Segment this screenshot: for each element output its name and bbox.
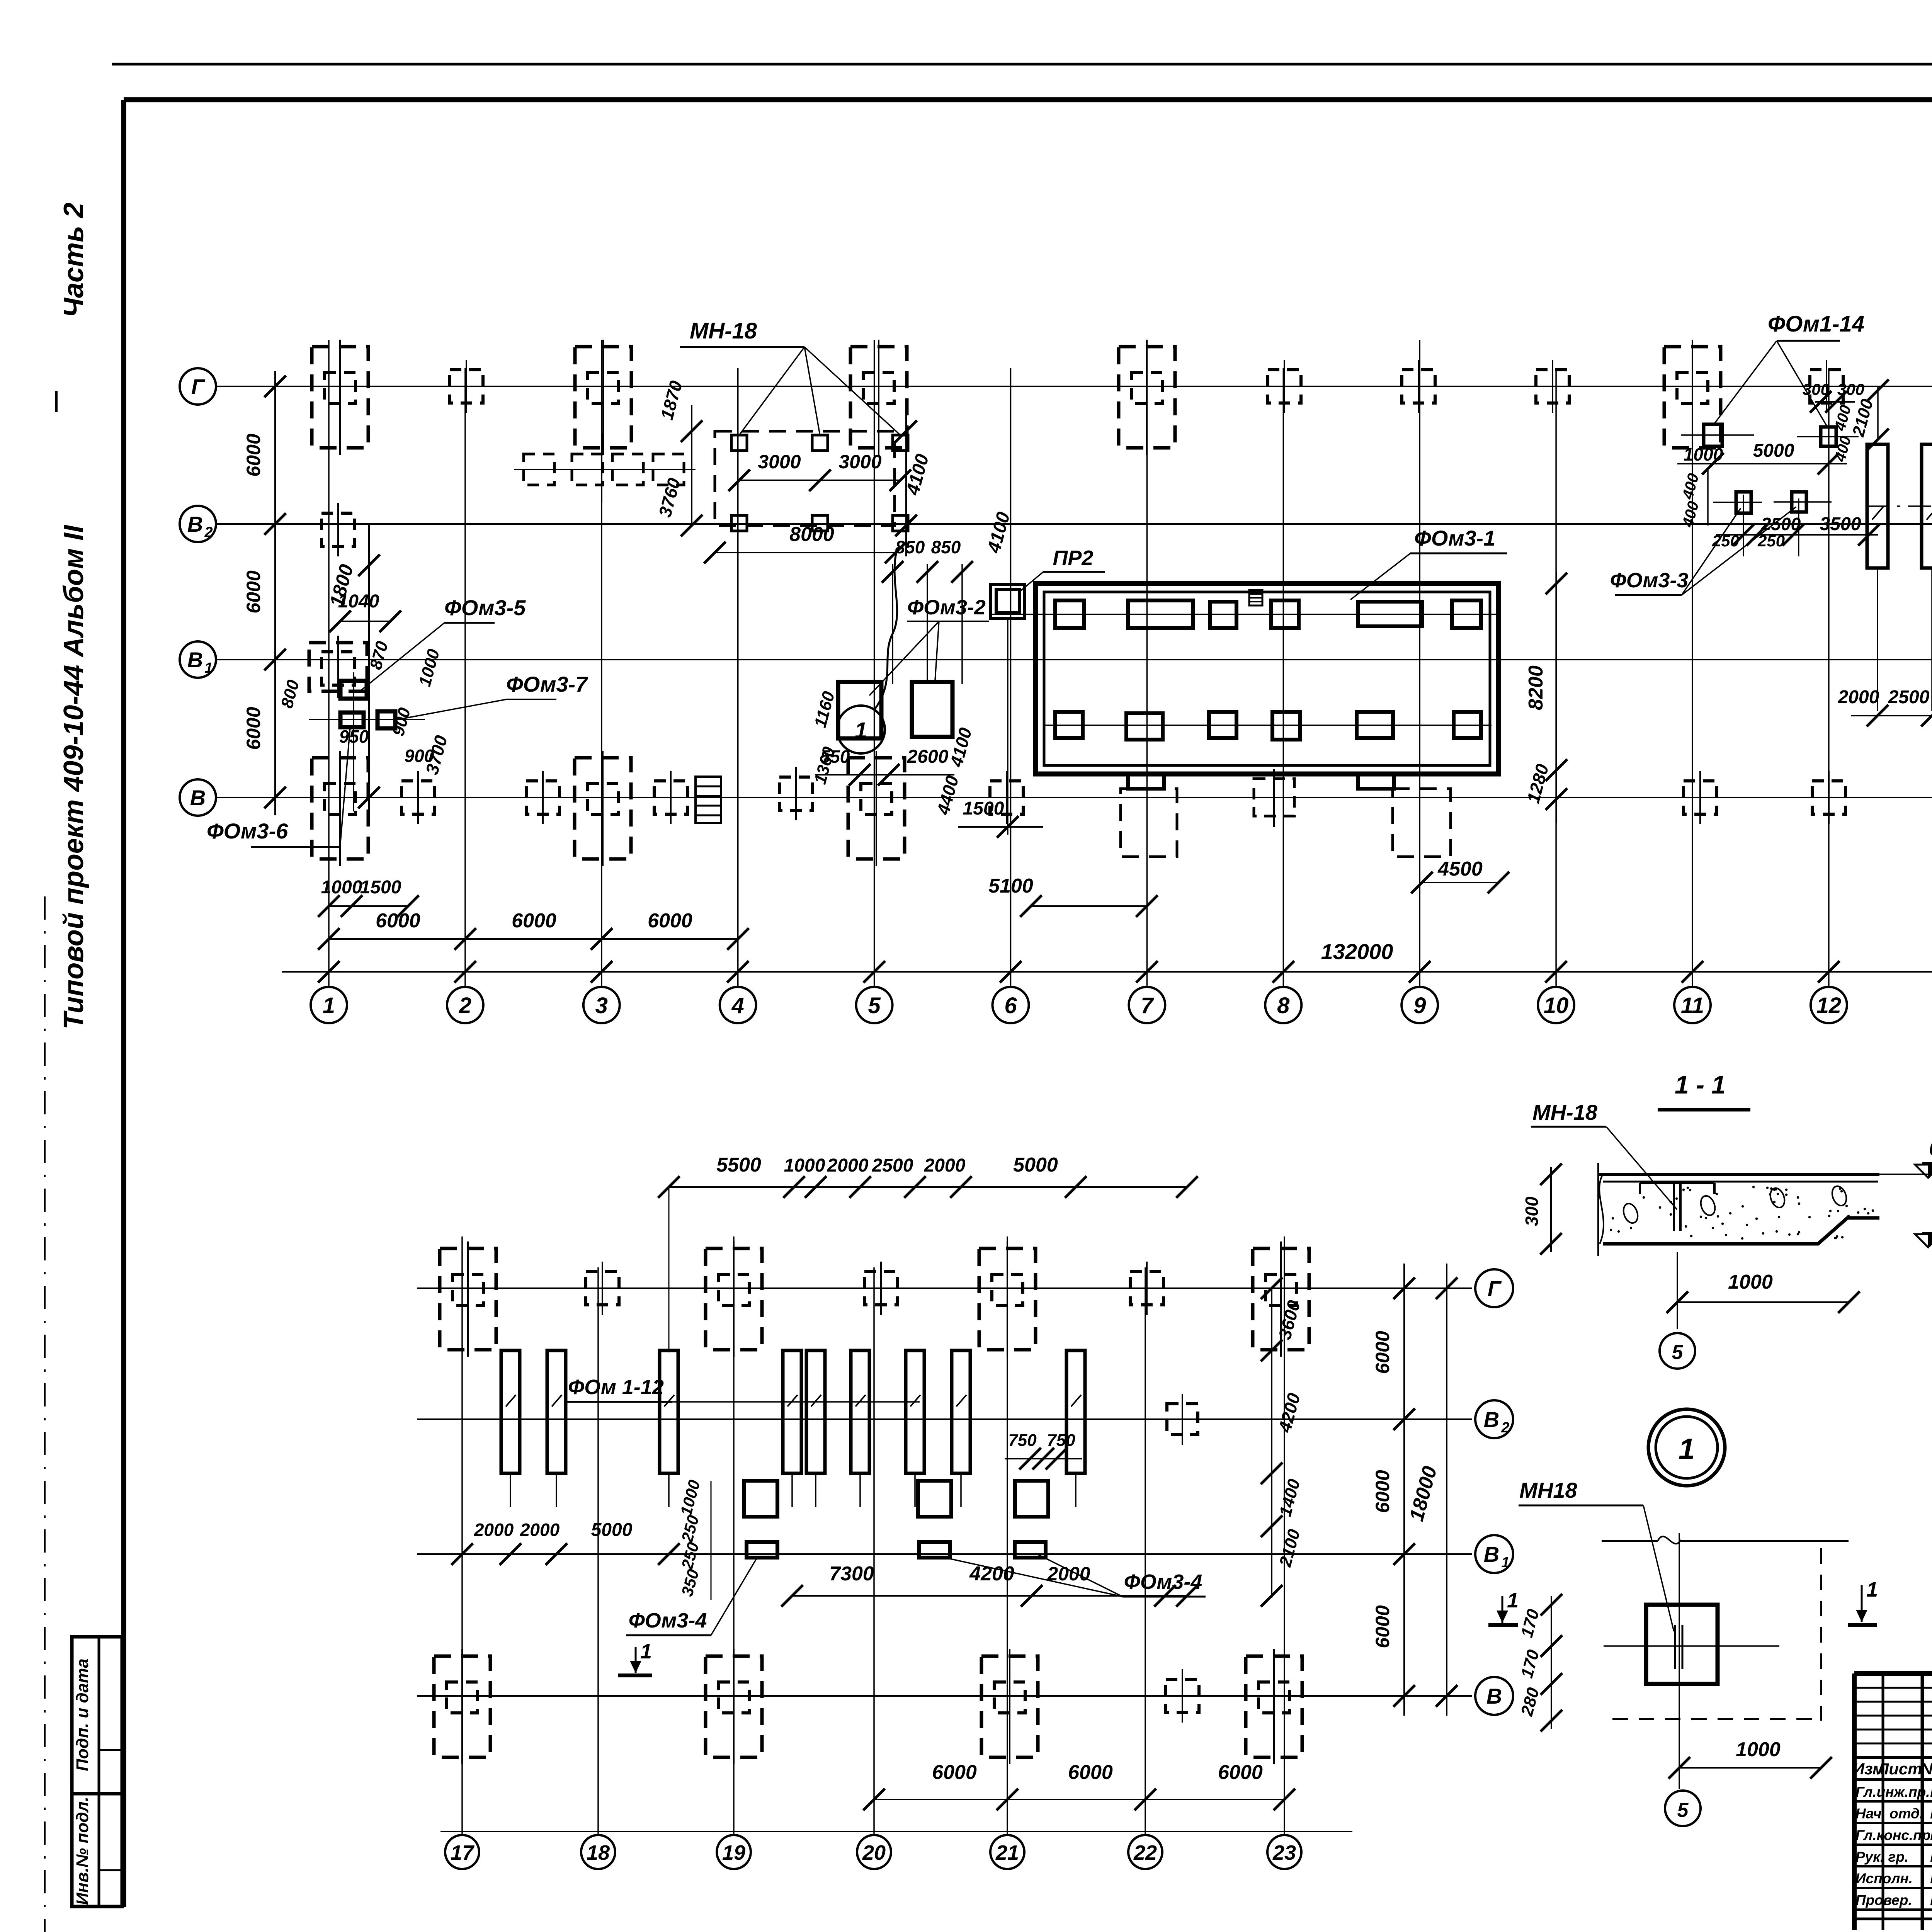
svg-text:ФОм3-4: ФОм3-4 [1124,1570,1202,1594]
svg-text:1040: 1040 [338,591,379,612]
svg-text:Маслобойщикова: Маслобойщикова [1930,1890,1932,1909]
svg-text:1: 1 [323,993,335,1018]
svg-text:6000: 6000 [932,1761,977,1784]
svg-text:1 - 1: 1 - 1 [1675,1070,1726,1099]
svg-text:550: 550 [820,747,850,767]
svg-text:В: В [1484,1542,1499,1566]
svg-text:6000: 6000 [1068,1761,1113,1784]
svg-text:6: 6 [1004,993,1017,1018]
svg-text:ФОм1-14: ФОм1-14 [1768,311,1864,337]
svg-text:Кальчук: Кальчук [1930,1825,1932,1844]
svg-text:5: 5 [1677,1799,1689,1821]
svg-text:2000: 2000 [520,1520,560,1540]
svg-text:12: 12 [1816,993,1842,1018]
svg-text:1000: 1000 [321,877,362,898]
svg-text:Исполн.: Исполн. [1855,1871,1913,1886]
svg-text:11: 11 [1681,993,1704,1018]
svg-text:2000: 2000 [1838,687,1879,707]
svg-text:ФОм3-6: ФОм3-6 [207,819,288,843]
svg-text:3: 3 [595,993,608,1018]
svg-text:3000: 3000 [838,451,881,473]
svg-text:2500: 2500 [872,1155,913,1176]
svg-text:1000: 1000 [1728,1271,1773,1293]
svg-text:2600: 2600 [907,747,949,767]
svg-text:6000: 6000 [1372,1470,1393,1513]
svg-text:В: В [1486,1684,1502,1708]
svg-text:7: 7 [1141,993,1154,1018]
svg-text:10: 10 [1544,993,1569,1018]
svg-text:ФОм3-4: ФОм3-4 [629,1609,707,1632]
svg-text:Маслобойщикова: Маслобойщикова [1930,1847,1932,1866]
svg-text:750: 750 [1047,1431,1075,1450]
svg-text:ФОм3-1: ФОм3-1 [1414,526,1495,550]
svg-text:6000: 6000 [648,910,692,932]
svg-text:6000: 6000 [512,910,556,932]
svg-text:1: 1 [1679,1433,1695,1466]
svg-text:1: 1 [1866,1578,1878,1601]
svg-text:Рук. гр.: Рук. гр. [1855,1849,1908,1865]
svg-text:750: 750 [1008,1431,1037,1450]
svg-text:8: 8 [1277,993,1290,1018]
svg-text:Гл.инж.пр.: Гл.инж.пр. [1855,1784,1930,1800]
svg-text:6000: 6000 [376,910,420,932]
svg-text:ФОм3-7: ФОм3-7 [506,672,588,696]
svg-text:1500: 1500 [963,798,1004,819]
svg-text:ФОм3-3: ФОм3-3 [1610,569,1689,592]
svg-text:850: 850 [931,537,961,557]
svg-text:3500: 3500 [1820,514,1861,534]
svg-text:1: 1 [204,660,213,676]
svg-text:5500: 5500 [716,1154,761,1176]
svg-text:ПР2: ПР2 [1053,546,1094,570]
svg-text:5000: 5000 [1013,1154,1058,1176]
svg-text:Часть 2: Часть 2 [58,202,89,318]
svg-text:22: 22 [1133,1841,1157,1864]
svg-text:19: 19 [722,1841,745,1864]
svg-text:Глазунов: Глазунов [1930,1803,1932,1822]
svg-text:18: 18 [587,1841,610,1864]
svg-text:6000: 6000 [243,570,264,613]
svg-text:1000: 1000 [784,1155,825,1176]
svg-text:Гл.конс.пр.: Гл.конс.пр. [1855,1827,1932,1843]
svg-text:Лист: Лист [1876,1760,1922,1778]
svg-text:20: 20 [862,1841,886,1864]
svg-text:Г: Г [1488,1276,1502,1301]
svg-text:5: 5 [868,993,881,1018]
svg-text:6000: 6000 [1372,1605,1393,1648]
svg-text:2: 2 [1501,1420,1509,1436]
svg-text:2000: 2000 [924,1155,966,1176]
svg-text:5100: 5100 [988,875,1033,897]
svg-text:3000: 3000 [758,451,801,473]
svg-text:Г: Г [191,374,206,399]
svg-text:1: 1 [640,1640,652,1663]
svg-text:300: 300 [1522,1196,1542,1226]
svg-text:МН18: МН18 [1519,1478,1577,1502]
svg-text:1000: 1000 [1736,1738,1781,1761]
svg-text:950: 950 [339,726,369,747]
svg-text:5: 5 [1672,1341,1684,1364]
svg-text:21: 21 [995,1841,1019,1864]
svg-text:8000: 8000 [789,523,834,546]
svg-text:В: В [187,648,203,672]
svg-text:4500: 4500 [1437,858,1483,880]
svg-text:4200: 4200 [969,1563,1014,1585]
svg-text:ФОм3-2: ФОм3-2 [907,596,986,619]
svg-text:4: 4 [731,993,744,1018]
svg-text:5000: 5000 [591,1520,633,1540]
svg-text:23: 23 [1272,1841,1296,1864]
svg-text:5000: 5000 [1753,440,1794,461]
svg-text:В: В [190,786,206,810]
svg-text:2000: 2000 [827,1155,869,1176]
svg-text:2: 2 [459,993,471,1018]
svg-text:6000: 6000 [1372,1331,1393,1374]
svg-text:ФОм3-5: ФОм3-5 [444,595,526,620]
svg-text:6000: 6000 [1218,1761,1263,1784]
svg-text:В: В [1484,1407,1499,1432]
svg-text:1: 1 [1501,1554,1509,1571]
svg-text:7300: 7300 [829,1563,874,1585]
svg-text:1000: 1000 [1684,444,1723,464]
svg-text:ФОм 1-12: ФОм 1-12 [568,1376,664,1399]
svg-text:17: 17 [451,1841,475,1864]
svg-text:8200: 8200 [1525,665,1547,710]
svg-text:2500: 2500 [1888,687,1930,707]
svg-text:6000: 6000 [243,707,264,750]
svg-text:1: 1 [1507,1589,1519,1612]
svg-text:МН-18: МН-18 [1532,1100,1598,1124]
svg-text:МН-18: МН-18 [690,318,757,344]
svg-text:2000: 2000 [474,1520,514,1540]
svg-text:Ерохина: Ерохина [1930,1868,1932,1887]
svg-text:Провер.: Провер. [1855,1892,1912,1908]
svg-text:В: В [187,512,203,536]
svg-text:1500: 1500 [360,877,401,898]
svg-text:850: 850 [895,537,925,557]
svg-text:132000: 132000 [1321,939,1393,964]
svg-text:Подп. и дата: Подп. и дата [73,1658,92,1771]
svg-text:2: 2 [204,524,213,541]
svg-text:Типовой проект 409-10-44: Типовой проект 409-10-44 Альбом II [58,524,89,1029]
svg-text:9: 9 [1413,993,1426,1018]
svg-text:0.000: 0.000 [1929,1137,1932,1160]
svg-text:Нач. отд.: Нач. отд. [1855,1806,1923,1821]
svg-text:№ документа: № документа [1920,1760,1932,1778]
svg-text:Рыжак: Рыжак [1930,1782,1932,1801]
svg-text:6000: 6000 [243,434,264,476]
svg-text:Инв.№ подл.: Инв.№ подл. [73,1797,92,1905]
